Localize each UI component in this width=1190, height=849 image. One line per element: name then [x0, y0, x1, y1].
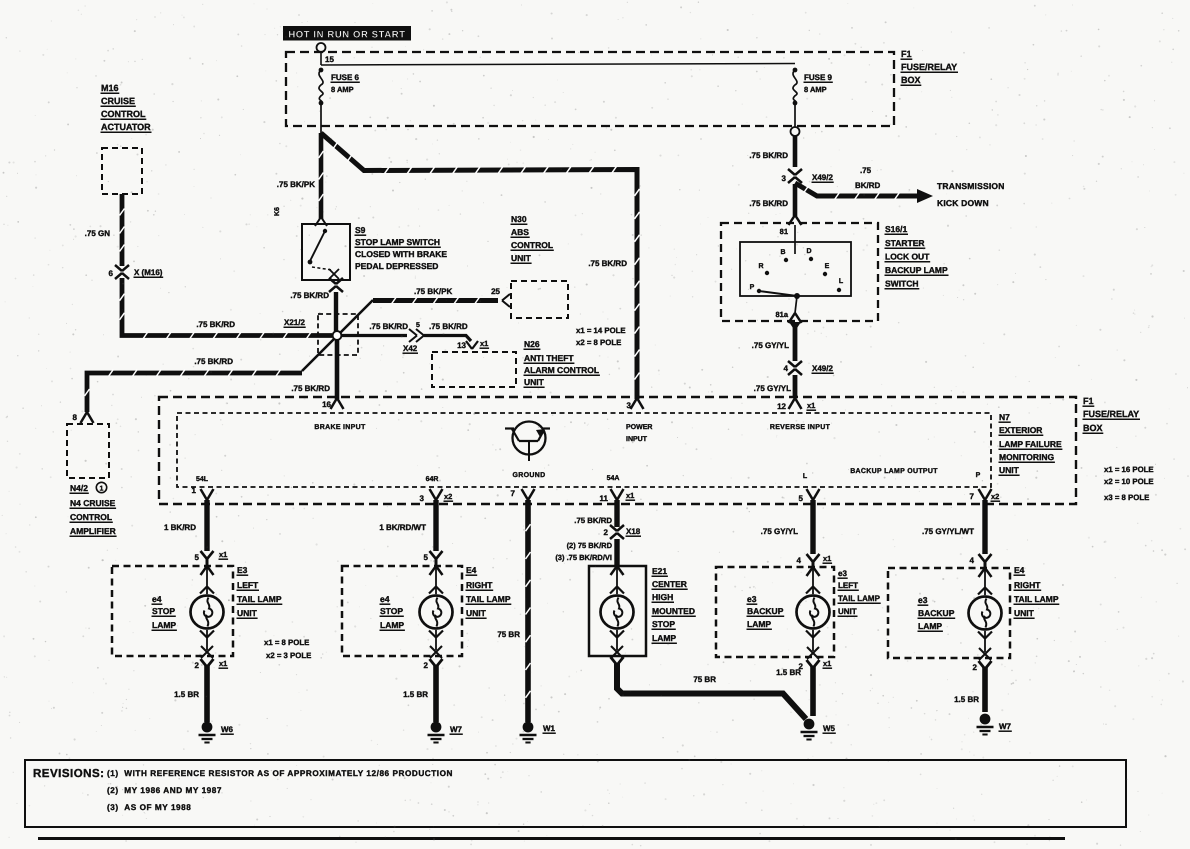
svg-text:15: 15 [325, 55, 334, 64]
svg-text:R: R [758, 263, 763, 270]
svg-text:5: 5 [424, 553, 429, 562]
connector X49/2 lower [788, 361, 795, 367]
svg-text:BOX: BOX [901, 75, 921, 85]
backup lamp bulb e3 (left) [797, 596, 830, 629]
svg-text:STOP: STOP [652, 619, 675, 629]
svg-text:N30: N30 [511, 214, 527, 224]
svg-text:LOCK OUT: LOCK OUT [885, 252, 930, 262]
svg-text:TAIL LAMP: TAIL LAMP [838, 594, 881, 603]
svg-text:2: 2 [604, 528, 609, 537]
fuse F9 [793, 68, 798, 73]
ground W6 [202, 722, 213, 733]
svg-text:54L: 54L [196, 476, 209, 483]
connector X (M16) [115, 265, 122, 271]
svg-text:UNIT: UNIT [237, 608, 258, 618]
svg-text:UNIT: UNIT [466, 608, 487, 618]
pin 12 reverse input [789, 398, 796, 409]
svg-text:(2) MY 1986 AND MY 1987: (2) MY 1986 AND MY 1987 [107, 786, 222, 795]
svg-text:CENTER: CENTER [652, 579, 687, 589]
svg-text:TRANSMISSION: TRANSMISSION [937, 181, 1005, 191]
svg-text:81a: 81a [775, 310, 788, 319]
svg-text:BACKUP: BACKUP [918, 608, 955, 618]
connector below S9 [329, 278, 336, 284]
wire 75 GY/YL to X49/2 [793, 326, 798, 361]
svg-text:x1: x1 [823, 554, 831, 563]
svg-text:4: 4 [797, 556, 802, 565]
svg-text:3: 3 [627, 401, 632, 410]
page scan edge line [38, 837, 1065, 840]
svg-text:CLOSED WITH BRAKE: CLOSED WITH BRAKE [355, 249, 447, 259]
pin at top [807, 567, 814, 576]
svg-text:2: 2 [424, 661, 429, 670]
svg-text:TAIL LAMP: TAIL LAMP [237, 594, 282, 604]
svg-text:x2 = 3 POLE: x2 = 3 POLE [266, 651, 311, 660]
svg-text:x2: x2 [991, 492, 999, 501]
connector X42 [409, 329, 417, 336]
svg-text:X42: X42 [403, 344, 418, 353]
connector 5 x1 [201, 551, 208, 559]
svg-text:81: 81 [780, 227, 788, 236]
svg-text:EXTERIOR: EXTERIOR [999, 425, 1042, 435]
svg-text:(3) .75 BK/RD/VI: (3) .75 BK/RD/VI [555, 553, 612, 562]
wire 75 BR from E21 to ground W5 [617, 663, 806, 719]
wire 1.5 BR to ground W6 [204, 665, 210, 722]
svg-text:BACKUP: BACKUP [747, 606, 784, 616]
svg-text:x1 = 14 POLE: x1 = 14 POLE [576, 326, 626, 335]
svg-text:x2 = 8 POLE: x2 = 8 POLE [576, 338, 621, 347]
svg-text:X21/2: X21/2 [284, 318, 305, 327]
svg-text:X (M16): X (M16) [134, 268, 163, 277]
svg-text:UNIT: UNIT [999, 465, 1020, 475]
wire fuse 9 down [794, 103, 796, 127]
svg-text:E3: E3 [237, 565, 248, 575]
revisions box [25, 760, 1126, 827]
svg-text:STOP: STOP [380, 606, 403, 616]
svg-text:N4 CRUISE: N4 CRUISE [70, 498, 116, 508]
svg-text:KICK DOWN: KICK DOWN [937, 198, 989, 208]
svg-text:FUSE/RELAY: FUSE/RELAY [901, 62, 957, 72]
svg-text:CONTROL: CONTROL [511, 240, 553, 250]
svg-text:X49/2: X49/2 [812, 364, 833, 373]
svg-text:.75 BK/PK: .75 BK/PK [277, 180, 315, 189]
connector 4 [979, 554, 986, 562]
wire power feed to monitoring unit (diagonal + horizontal + vertical) [321, 133, 637, 399]
svg-text:REVISIONS:: REVISIONS: [33, 768, 104, 780]
pin 81 into S16/1 [789, 215, 796, 225]
svg-text:BOX: BOX [1083, 423, 1103, 433]
pin 13 into N26 [466, 341, 472, 349]
stop lamp bulb e4 (left) [191, 596, 224, 629]
E21 center high mounted stop lamp box [589, 566, 646, 656]
svg-text:LAMP: LAMP [152, 620, 176, 630]
diagonal wire through X21/2 [302, 300, 373, 371]
svg-text:SWITCH: SWITCH [885, 279, 919, 289]
svg-text:1 BK/RD/WT: 1 BK/RD/WT [379, 523, 426, 532]
pin at top [979, 568, 986, 577]
junction circle X21/2 [333, 331, 342, 340]
backup lamp bulb e3 (right) [969, 597, 1002, 630]
svg-text:INPUT: INPUT [626, 436, 648, 443]
N30 box [511, 281, 568, 318]
svg-text:.75 BK/RD: .75 BK/RD [749, 199, 788, 208]
svg-text:N7: N7 [999, 412, 1010, 422]
wire 1 BK/RD/WT to right stop lamp [433, 500, 438, 551]
connector 2 x1 below E3 [201, 659, 208, 667]
svg-text:x1: x1 [807, 401, 815, 410]
wire M16 to connector block X21/2 [122, 278, 332, 336]
N26 anti-theft box [432, 352, 516, 387]
svg-text:W5: W5 [823, 724, 836, 733]
svg-text:W1: W1 [543, 724, 556, 733]
svg-text:N26: N26 [524, 339, 540, 349]
pin 16 brake input [331, 398, 338, 409]
svg-text:UNIT: UNIT [838, 607, 857, 616]
wire S9 to X21/2 [334, 292, 338, 331]
S16/1 inner contact box [740, 242, 851, 296]
right backup lamp tail unit box [888, 568, 1010, 658]
connector 5 [430, 551, 437, 559]
E3 left tail lamp unit box [112, 566, 233, 656]
svg-text:P: P [976, 472, 981, 479]
wire X21/2 to brake input pin 16 [335, 340, 340, 399]
svg-text:12: 12 [777, 402, 786, 411]
wire .75 BR ground lead [525, 500, 531, 722]
svg-text:HIGH: HIGH [652, 592, 673, 602]
pin at top of E3 box [201, 566, 208, 575]
svg-text:1: 1 [100, 486, 104, 493]
svg-text:MONITORING: MONITORING [999, 452, 1054, 462]
connector 2 x1 below [807, 660, 814, 668]
N4/2 cruise control amplifier box [67, 424, 109, 478]
wire .75 BK/RD from cruise amplifier to X21/2 [87, 373, 302, 412]
wire 1.5 BR to ground W7 (left) [433, 665, 439, 722]
svg-text:7: 7 [511, 489, 516, 498]
svg-text:11: 11 [600, 494, 609, 503]
connector 2 below [979, 661, 986, 669]
svg-text:.75 GY/YL: .75 GY/YL [754, 384, 791, 393]
svg-text:x1: x1 [480, 339, 488, 348]
svg-text:25: 25 [491, 287, 500, 296]
svg-text:AMPLIFIER: AMPLIFIER [70, 526, 116, 536]
transistor symbol in N7 [513, 422, 546, 455]
svg-text:B: B [780, 249, 785, 256]
svg-text:e4: e4 [380, 594, 390, 604]
svg-text:.75 BK/RD: .75 BK/RD [588, 259, 627, 268]
wire 75 GY/YL to left backup lamp [810, 500, 815, 554]
svg-text:.75 GY/YL: .75 GY/YL [752, 341, 789, 350]
pin into stop lamp switch [315, 217, 321, 226]
battery terminal circle [317, 43, 326, 52]
svg-text:W6: W6 [221, 725, 234, 734]
svg-text:TAIL LAMP: TAIL LAMP [1014, 594, 1059, 604]
svg-text:BK/RD: BK/RD [855, 181, 881, 190]
svg-text:LEFT: LEFT [838, 581, 858, 590]
svg-text:LAMP: LAMP [380, 620, 404, 630]
svg-text:5: 5 [799, 494, 804, 503]
wire X21/2 to X42 and anti-theft unit [341, 334, 407, 337]
pin 8 of cruise amplifier [81, 412, 88, 423]
svg-text:x2 = 10 POLE: x2 = 10 POLE [1104, 477, 1154, 486]
svg-text:x1 = 8 POLE: x1 = 8 POLE [264, 638, 309, 647]
svg-text:7: 7 [970, 492, 975, 501]
svg-text:X49/2: X49/2 [812, 173, 833, 182]
svg-text:.75 BK/RD: .75 BK/RD [196, 320, 235, 329]
svg-text:x1 = 16 POLE: x1 = 16 POLE [1104, 465, 1154, 474]
svg-text:5: 5 [416, 322, 420, 329]
svg-text:RIGHT: RIGHT [466, 580, 493, 590]
svg-text:BACKUP LAMP: BACKUP LAMP [885, 265, 948, 275]
pin 25 into N30 [502, 294, 510, 301]
connector 2 below E4 [430, 659, 437, 667]
M16 actuator box [102, 148, 142, 194]
svg-text:e4: e4 [152, 594, 162, 604]
svg-text:W7: W7 [450, 725, 463, 734]
svg-text:PEDAL DEPRESSED: PEDAL DEPRESSED [355, 261, 438, 271]
svg-text:STARTER: STARTER [885, 238, 925, 248]
wire to E21 with revision notes [614, 539, 619, 566]
fuse/relay box F1 (top) [286, 52, 894, 126]
svg-text:8 AMP: 8 AMP [804, 85, 827, 94]
svg-text:STOP: STOP [152, 606, 175, 616]
svg-text:LAMP FAILURE: LAMP FAILURE [999, 439, 1062, 449]
svg-text:64R: 64R [426, 476, 439, 483]
svg-text:FUSE 6: FUSE 6 [331, 73, 360, 82]
wire 1 BK/RD to left stop lamp [204, 500, 209, 551]
svg-text:L: L [839, 278, 844, 285]
connector 4 x1 [807, 554, 814, 562]
svg-text:F1: F1 [901, 49, 912, 59]
svg-text:ACTUATOR: ACTUATOR [101, 122, 151, 132]
svg-text:8 AMP: 8 AMP [331, 85, 354, 94]
svg-text:(1) WITH REFERENCE RESISTOR A: (1) WITH REFERENCE RESISTOR AS OF APPROX… [107, 769, 453, 778]
svg-text:FUSE 9: FUSE 9 [804, 73, 833, 82]
svg-text:x1: x1 [219, 550, 227, 559]
svg-text:ANTI THEFT: ANTI THEFT [524, 353, 574, 363]
svg-text:3: 3 [420, 494, 425, 503]
svg-text:1.5 BR: 1.5 BR [403, 690, 428, 699]
terminal circle below fuse 9 [791, 127, 800, 136]
svg-text:X18: X18 [626, 527, 641, 536]
hot-in-run-or-start label [283, 26, 411, 41]
svg-text:e3: e3 [838, 569, 847, 578]
svg-text:LAMP: LAMP [747, 619, 771, 629]
wire fuse 6 to splice [320, 103, 322, 133]
svg-text:x3 = 8 POLE: x3 = 8 POLE [1104, 493, 1149, 502]
svg-text:BRAKE INPUT: BRAKE INPUT [314, 424, 366, 431]
S16/1 starter lockout switch box [721, 223, 878, 321]
svg-text:MOUNTED: MOUNTED [652, 606, 695, 616]
svg-text:M16: M16 [101, 83, 119, 93]
svg-text:.75 BK/RD: .75 BK/RD [290, 291, 329, 300]
svg-text:3: 3 [782, 174, 787, 183]
wire .75 BK/RD to X18 [614, 500, 619, 527]
svg-text:FUSE/RELAY: FUSE/RELAY [1083, 409, 1139, 419]
svg-text:x2: x2 [444, 492, 452, 501]
svg-text:E: E [825, 263, 830, 270]
S9 switch internals [323, 229, 327, 233]
svg-text:e3: e3 [747, 594, 757, 604]
wire .75 GY/YL to reverse input [793, 375, 798, 398]
svg-text:POWER: POWER [626, 424, 652, 431]
wire X42 to pin 13 [424, 336, 471, 342]
svg-text:E21: E21 [652, 566, 667, 576]
svg-text:STOP LAMP SWITCH: STOP LAMP SWITCH [355, 237, 440, 247]
svg-text:.75 GY/YL/WT: .75 GY/YL/WT [922, 527, 974, 536]
svg-text:.75 BK/RD: .75 BK/RD [429, 322, 468, 331]
svg-text:D: D [806, 248, 811, 255]
svg-text:LAMP: LAMP [652, 633, 676, 643]
svg-text:.75 BK/PK: .75 BK/PK [414, 287, 452, 296]
svg-text:16: 16 [322, 400, 331, 409]
svg-text:S16/1: S16/1 [885, 224, 907, 234]
svg-text:.75 BK/RD: .75 BK/RD [194, 357, 233, 366]
stop lamp bulb e4 (right) [420, 596, 453, 629]
svg-text:5: 5 [195, 553, 200, 562]
svg-text:6: 6 [109, 269, 114, 278]
svg-text:S9: S9 [355, 225, 366, 235]
fuse/relay box F1 (outer, lower) [159, 397, 1076, 504]
svg-text:CONTROL: CONTROL [70, 512, 112, 522]
svg-text:HOT IN RUN OR START: HOT IN RUN OR START [288, 30, 405, 41]
connector block X21/2 [318, 314, 358, 355]
ground W7 right [980, 714, 991, 725]
ground W1 [523, 722, 534, 733]
svg-text:1: 1 [192, 486, 197, 495]
svg-text:2: 2 [195, 661, 200, 670]
svg-text:1.5 BR: 1.5 BR [776, 668, 801, 677]
svg-text:.75: .75 [860, 166, 872, 175]
svg-text:ABS: ABS [511, 227, 529, 237]
svg-text:P: P [750, 284, 755, 291]
svg-text:TAIL LAMP: TAIL LAMP [466, 594, 511, 604]
wire 1.5 BR to ground W7 right [982, 667, 988, 712]
svg-text:x1: x1 [219, 659, 227, 668]
svg-text:.75 BK/RD: .75 BK/RD [749, 151, 788, 160]
svg-text:.75 GN: .75 GN [85, 229, 111, 238]
connector X18 [610, 525, 617, 531]
ground W7 left [431, 722, 442, 733]
svg-text:GROUND: GROUND [513, 472, 546, 479]
svg-text:N4/2: N4/2 [70, 483, 88, 493]
svg-text:.75 GY/YL: .75 GY/YL [761, 527, 798, 536]
svg-text:(2) 75 BK/RD: (2) 75 BK/RD [567, 541, 613, 550]
svg-text:1.5 BR: 1.5 BR [954, 695, 979, 704]
svg-text:x1: x1 [626, 491, 634, 500]
svg-text:L: L [803, 473, 808, 480]
wire .75 BK/PK to ABS control unit [373, 298, 498, 303]
E4 right tail lamp unit box [342, 566, 462, 656]
svg-text:BACKUP LAMP OUTPUT: BACKUP LAMP OUTPUT [850, 468, 938, 475]
switch arm [759, 291, 797, 296]
wire .75 BK/RD to S16/1 [793, 184, 798, 216]
wire 75 GY/YL/WT to right backup lamp [982, 500, 987, 554]
svg-text:4: 4 [970, 556, 975, 565]
fuse F6 [319, 68, 324, 73]
svg-text:1 BK/RD: 1 BK/RD [164, 523, 196, 532]
svg-text:2: 2 [973, 663, 978, 672]
transmission kick down branch [795, 183, 917, 196]
svg-text:54A: 54A [607, 475, 620, 482]
svg-text:ALARM CONTROL: ALARM CONTROL [524, 365, 599, 375]
pin at top of E21 [611, 566, 618, 575]
svg-text:E4: E4 [1014, 565, 1025, 575]
wire 1.5 BR to ground W5 [810, 666, 816, 716]
pin at top of E4 box [430, 566, 437, 575]
svg-text:8: 8 [73, 413, 78, 422]
wire .75 GN from M16 [120, 194, 125, 266]
svg-text:13: 13 [457, 341, 466, 350]
svg-text:(3) AS OF MY 1988: (3) AS OF MY 1988 [107, 803, 191, 812]
svg-text:x1: x1 [823, 659, 831, 668]
svg-text:K6: K6 [274, 207, 281, 216]
wire .75 BK/PK down to stop lamp switch [319, 133, 324, 219]
svg-text:UNIT: UNIT [1014, 608, 1035, 618]
stop lamp switch S9 box [302, 224, 350, 280]
svg-text:.75 BK/RD: .75 BK/RD [574, 516, 612, 525]
pin 3 power input [631, 398, 638, 409]
svg-text:CONTROL: CONTROL [101, 109, 146, 119]
wire from terminal into fuse box [320, 52, 322, 65]
connector X49/2 upper [788, 169, 795, 175]
svg-text:75 BR: 75 BR [693, 675, 716, 684]
svg-text:LEFT: LEFT [237, 580, 259, 590]
svg-text:E4: E4 [466, 565, 477, 575]
svg-text:e3: e3 [918, 595, 928, 605]
svg-text:UNIT: UNIT [524, 377, 545, 387]
svg-text:.75 BK/RD: .75 BK/RD [369, 322, 408, 331]
left backup lamp tail unit box [716, 567, 834, 657]
svg-text:CRUISE: CRUISE [101, 96, 135, 106]
wire .75 BK/RD fuse 9 to X49/2 [793, 136, 798, 167]
N7 monitoring unit box (inner) [177, 413, 991, 487]
bus wire between fuse 6 and fuse 9 [321, 64, 795, 66]
svg-text:UNIT: UNIT [511, 253, 532, 263]
svg-text:LAMP: LAMP [918, 621, 942, 631]
svg-text:.75 BK/RD: .75 BK/RD [291, 384, 330, 393]
svg-text:4: 4 [784, 364, 789, 373]
svg-text:REVERSE INPUT: REVERSE INPUT [770, 424, 831, 431]
connector below E21 [611, 657, 618, 665]
svg-text:1.5 BR: 1.5 BR [174, 690, 199, 699]
svg-text:W7: W7 [999, 722, 1012, 731]
stop lamp bulb E21 [601, 596, 634, 629]
ground W5 shared [804, 719, 815, 730]
svg-text:75 BR: 75 BR [497, 630, 520, 639]
svg-text:RIGHT: RIGHT [1014, 580, 1041, 590]
